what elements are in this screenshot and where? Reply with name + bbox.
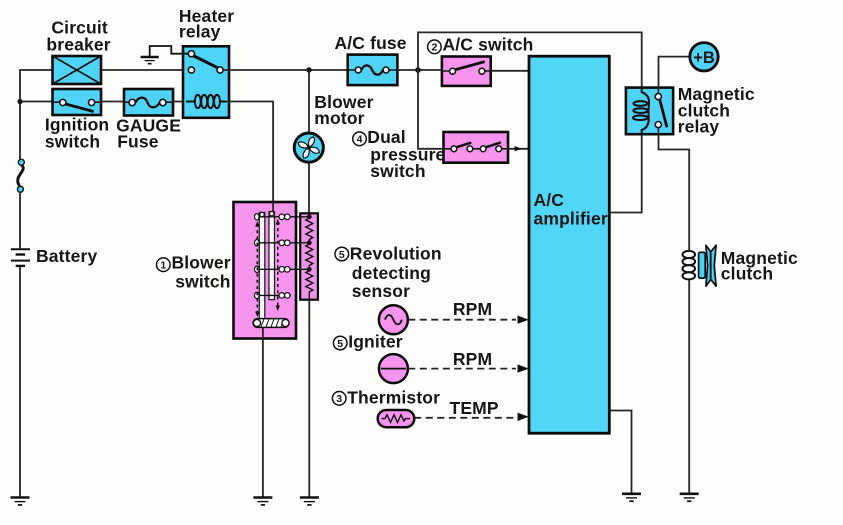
wire gauge fuse to heater relay coil <box>173 101 190 103</box>
svg-text:A/C: A/C <box>534 190 565 210</box>
node junction blower motor tap <box>306 67 311 72</box>
wire blower switch to ground <box>262 328 264 498</box>
motor blower M1 <box>294 132 324 162</box>
node junction bus/ignition <box>17 99 22 104</box>
switch dual pressure (4) <box>444 132 509 163</box>
blower switch slider bar2 <box>269 212 275 300</box>
sensor thermistor (3) <box>378 410 415 427</box>
svg-text:A/C fuse: A/C fuse <box>335 33 407 53</box>
svg-text:clutch: clutch <box>721 264 773 284</box>
wire left bus vertical <box>20 70 53 497</box>
node 2 circled <box>428 40 442 54</box>
battery BAT <box>11 249 30 266</box>
wire CB to heater relay <box>101 69 188 71</box>
blower switch right contact column <box>279 214 290 298</box>
magnetic clutch relay switch <box>655 88 667 134</box>
wire dashed RPM2 to amplifier <box>408 368 516 370</box>
wire ignition switch to gauge fuse <box>101 101 124 103</box>
ignition switch SW <box>53 89 102 115</box>
heater relay coil <box>186 95 226 108</box>
magnetic clutch pulley <box>699 245 717 286</box>
heater relay switch arm and pins <box>188 51 223 73</box>
svg-text:amplifier: amplifier <box>534 209 608 229</box>
wire heater relay coil out going down to blower switch <box>226 102 273 212</box>
svg-text:+B: +B <box>693 49 715 67</box>
relay Heater (box) <box>183 46 229 118</box>
svg-text:Thermistor: Thermistor <box>347 387 440 407</box>
node 5 circled <box>335 247 349 261</box>
svg-text:5: 5 <box>337 338 343 350</box>
wire relay switch down to magnetic clutch <box>659 133 690 251</box>
svg-text:relay: relay <box>179 21 221 41</box>
wire resistor pack to ground <box>308 300 310 497</box>
blower switch travel arrows right <box>276 219 280 311</box>
wire magnetic clutch to ground <box>688 280 690 494</box>
switch blower (1) box <box>234 202 297 339</box>
blower switch bar top contacts <box>260 212 264 216</box>
svg-text:4: 4 <box>357 134 363 146</box>
sensor revolution detecting (5) <box>379 305 408 334</box>
switch A/C (2) <box>442 57 491 86</box>
svg-text:Battery: Battery <box>36 246 97 266</box>
magnetic clutch relay coil <box>633 88 649 134</box>
wire ignition row from bus <box>20 101 53 103</box>
node 4 circled <box>353 132 367 146</box>
blower switch slider bar1 <box>259 212 265 327</box>
svg-text:2: 2 <box>431 42 437 54</box>
ground heater relay <box>141 57 159 64</box>
svg-text:Revolution: Revolution <box>350 243 442 263</box>
arrow TEMP <box>518 413 529 421</box>
amplifier A/C U1 <box>529 56 609 433</box>
wire junction down to dual pressure switch <box>418 70 444 149</box>
relay magnetic clutch (box) <box>626 88 673 135</box>
svg-text:switch: switch <box>45 132 100 152</box>
blower switch row contacts row3 <box>256 268 310 270</box>
node junction top link <box>415 67 421 73</box>
ground resistor pack <box>300 498 319 505</box>
blower switch left contact column <box>254 214 259 299</box>
fuse A/C <box>348 55 398 86</box>
svg-text:detecting: detecting <box>352 263 431 283</box>
wire amplifier top-right to relay coil bottom <box>609 134 641 212</box>
ground bottom-left <box>11 498 30 505</box>
ground blower switch <box>253 498 272 505</box>
wire amplifier bottom-right to ground <box>609 411 631 494</box>
svg-text:Igniter: Igniter <box>348 331 403 351</box>
blower switch row contacts row1 <box>256 216 310 218</box>
svg-text:A/C switch: A/C switch <box>443 35 534 55</box>
wire blower motor branch <box>308 70 310 213</box>
resistor pack chain <box>306 213 313 299</box>
blower switch row contacts row4 <box>256 294 292 296</box>
magnetic clutch coil <box>683 251 696 280</box>
ground amplifier <box>622 494 641 501</box>
svg-text:motor: motor <box>314 108 364 128</box>
sensor igniter (5) <box>379 354 408 383</box>
svg-text:Blower: Blower <box>172 252 231 272</box>
wire heater relay to A/C fuse <box>223 69 348 71</box>
svg-text:relay: relay <box>678 117 720 137</box>
node 3 circled <box>332 392 346 406</box>
ground magnetic clutch <box>680 494 699 501</box>
svg-text:TEMP: TEMP <box>450 398 499 418</box>
blower switch dashed travel line right <box>277 222 279 308</box>
blower switch dashed travel line left <box>256 224 258 314</box>
heater relay ground wire <box>150 46 189 56</box>
wire dual pressure switch to amplifier <box>508 148 529 150</box>
svg-text:1: 1 <box>160 260 166 272</box>
svg-text:Fuse: Fuse <box>117 132 159 152</box>
node resistor tap2 <box>307 240 312 245</box>
wire into blower switch from heater relay <box>272 202 274 212</box>
blower switch travel arrows left <box>255 221 259 317</box>
svg-text:RPM: RPM <box>453 349 492 369</box>
svg-text:5: 5 <box>339 249 345 261</box>
node resistor tap3 <box>307 267 312 272</box>
svg-text:breaker: breaker <box>46 35 110 55</box>
blower switch screw bar <box>253 319 289 328</box>
resistor pack box <box>300 213 318 299</box>
svg-text:3: 3 <box>336 393 342 405</box>
fusible link <box>17 159 24 192</box>
wire dashed TEMP to amplifier <box>414 417 516 419</box>
svg-text:switch: switch <box>175 271 230 291</box>
svg-text:sensor: sensor <box>352 281 410 301</box>
node 5b circled <box>333 336 347 350</box>
wire A/C fuse to A/C switch <box>397 69 442 71</box>
node resistor tap1 <box>307 214 312 219</box>
wire relay switch up to +B <box>659 57 692 89</box>
svg-text:RPM: RPM <box>453 299 492 319</box>
arrow dual pressure switch output <box>515 146 522 151</box>
node +B terminal <box>690 43 718 71</box>
node 1 circled <box>157 258 171 272</box>
wire A/C switch to amplifier <box>491 70 529 72</box>
wire dashed RPM to amplifier <box>408 319 516 321</box>
svg-text:switch: switch <box>370 161 425 181</box>
blower switch row contacts row2 <box>256 242 310 244</box>
arrow RPM2 <box>518 364 529 372</box>
circuit breaker CB <box>53 56 102 84</box>
arrow RPM <box>518 316 529 324</box>
fuse GAUGE <box>124 89 173 116</box>
wire top link from junction up over to magnetic clutch relay coil <box>418 32 642 89</box>
